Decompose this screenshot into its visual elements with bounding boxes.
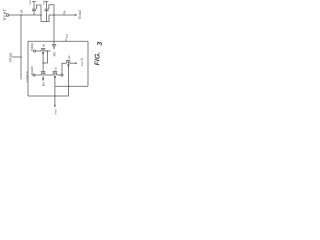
wire M1 gate feedback bbox=[36, 5, 41, 15]
terminal circle row2 bbox=[33, 74, 35, 76]
transistor M2 bbox=[46, 2, 48, 9]
wire T4 right bbox=[70, 62, 75, 64]
tick leader top bbox=[63, 13, 65, 15]
svg-text:out2: out2 bbox=[80, 58, 84, 67]
svg-text:M1: M1 bbox=[42, 43, 45, 47]
node M1 drain dot bbox=[40, 14, 42, 16]
wire T3 right bbox=[57, 74, 61, 76]
T4 body stem down to rail bbox=[67, 62, 69, 96]
T1 body stem with arrow bbox=[42, 50, 44, 63]
wire main horizontal top bbox=[9, 14, 41, 16]
transistor T4 bbox=[66, 59, 70, 61]
wire diode loop bbox=[43, 51, 47, 63]
transistor T5 bbox=[53, 41, 55, 44]
wire row1 left bbox=[36, 50, 42, 52]
transistor M1 vdd bar bbox=[32, 1, 36, 3]
svg-text:3: 3 bbox=[97, 42, 104, 46]
transistor M1 bbox=[33, 2, 35, 9]
transistor T1 bbox=[41, 47, 45, 49]
svg-text:Vddp: Vddp bbox=[30, 42, 34, 51]
box left edge bbox=[27, 41, 29, 96]
wire M2 gate feedback bbox=[49, 5, 54, 15]
wire row2 left bbox=[35, 74, 41, 76]
wire row2 mid bbox=[45, 74, 53, 76]
node dot row1 bbox=[47, 50, 49, 52]
output arrow top bbox=[75, 14, 77, 16]
output arrow mid bbox=[75, 62, 77, 64]
svg-text:34: 34 bbox=[65, 34, 69, 38]
node dot bottom bbox=[68, 85, 70, 87]
transistor T3 bbox=[53, 70, 57, 72]
svg-text:M4: M4 bbox=[68, 55, 71, 59]
svg-text:Vout: Vout bbox=[77, 9, 82, 19]
svg-text:pwdn: pwdn bbox=[30, 66, 34, 75]
arrow down bottom bbox=[54, 105, 56, 108]
svg-text:38: 38 bbox=[19, 10, 23, 14]
T2 body arrow down bbox=[42, 73, 44, 78]
wire pre-driver horizontal bbox=[28, 40, 88, 42]
svg-text:36: 36 bbox=[63, 10, 66, 13]
tick leader mid bbox=[65, 39, 67, 41]
svg-text:Vdd: Vdd bbox=[43, 0, 46, 5]
svg-text:Vbgp: Vbgp bbox=[9, 52, 13, 62]
wire T3 stem below rail bbox=[54, 96, 56, 105]
wire feedback right vertical bbox=[87, 41, 89, 86]
node dot left terminal bbox=[20, 56, 22, 58]
wire row1 right bbox=[45, 50, 51, 52]
wire bottom mid horizontal bbox=[55, 85, 88, 87]
svg-text:Vss: Vss bbox=[53, 109, 57, 115]
wire vref long vertical bbox=[20, 15, 22, 80]
wire drop to pre-driver line bbox=[53, 15, 55, 41]
svg-text:FIG.: FIG. bbox=[94, 52, 101, 66]
node dot gate chain bbox=[42, 62, 44, 64]
box bottom rail bbox=[28, 95, 69, 97]
terminal circle mid bbox=[61, 74, 63, 76]
wire to output arrow bbox=[49, 14, 75, 16]
transistor T2 bbox=[41, 70, 45, 72]
svg-text:M2: M2 bbox=[42, 82, 46, 86]
svg-text:M5: M5 bbox=[53, 52, 57, 57]
node junction dot input rail bbox=[20, 14, 22, 16]
wire dip under M2 bbox=[41, 15, 49, 22]
svg-text:M3: M3 bbox=[54, 67, 57, 71]
T3 body stem down to rail bbox=[54, 73, 56, 96]
transistor M2 vdd bar bbox=[45, 1, 49, 3]
svg-text:outpre: outpre bbox=[25, 71, 29, 82]
svg-text:Vref: Vref bbox=[2, 9, 7, 21]
node M2 drain dot bbox=[53, 14, 55, 16]
wire riser to T4 bbox=[62, 63, 66, 74]
input terminal circle bbox=[6, 14, 9, 17]
wire left terminal bbox=[13, 56, 22, 58]
wire chain to T2 bbox=[42, 63, 44, 71]
svg-text:Vdd: Vdd bbox=[29, 0, 32, 5]
terminal circle row1 bbox=[33, 50, 35, 52]
node dot rail junction bbox=[54, 95, 55, 96]
